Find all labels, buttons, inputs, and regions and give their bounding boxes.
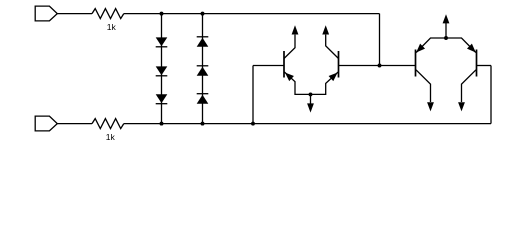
port P1 (top input terminal) bbox=[35, 6, 57, 21]
wire right diode column bbox=[202, 14, 204, 124]
diode D3 bbox=[156, 94, 168, 103]
wire Q1 base to bottom rail bbox=[252, 66, 254, 124]
junction node top rail / D4 bbox=[201, 12, 205, 16]
junction node bottom rail / D4 bbox=[201, 122, 205, 126]
resistor R2 bbox=[92, 119, 124, 129]
svg-text:1k: 1k bbox=[107, 22, 117, 32]
wire top rail bbox=[124, 13, 380, 15]
wire Q2/Q3 base link bbox=[380, 65, 416, 67]
junction node Q1/Q2 emitters bbox=[309, 92, 313, 96]
current tail arrow of Q1/Q2 pair bbox=[307, 94, 314, 112]
supply arrow above Q3/Q4 emitters bbox=[443, 14, 450, 38]
svg-text:1k: 1k bbox=[106, 132, 116, 142]
transistor Q1 bbox=[253, 25, 311, 94]
port P2 (bottom input terminal) bbox=[35, 116, 57, 131]
diode D5 bbox=[197, 66, 209, 76]
junction node top rail / D1 bbox=[160, 12, 164, 16]
wire port P2 to R2 bbox=[57, 123, 92, 125]
diode D6 bbox=[197, 94, 209, 104]
wire bottom rail rise to Q4 base bbox=[490, 66, 492, 124]
diode D4 bbox=[197, 37, 209, 47]
resistor R1 bbox=[92, 9, 124, 19]
wire port P1 to R1 bbox=[57, 13, 92, 15]
diode D2 bbox=[156, 66, 168, 75]
transistor Q3 bbox=[416, 38, 447, 111]
diode D1 bbox=[156, 37, 168, 46]
junction node bottom rail / D1 bbox=[160, 122, 164, 126]
junction node Q3/Q4 emitters bbox=[444, 36, 448, 40]
wire left diode column bbox=[161, 14, 163, 124]
junction node Q2/Q3 bases bbox=[378, 64, 382, 68]
wire bottom rail bbox=[124, 123, 491, 125]
junction node bottom rail / Q1 base bbox=[251, 122, 255, 126]
wire top rail drop to Q2/Q3 base node bbox=[379, 14, 381, 66]
transistor Q2 bbox=[311, 25, 380, 94]
transistor Q4 bbox=[446, 38, 491, 111]
